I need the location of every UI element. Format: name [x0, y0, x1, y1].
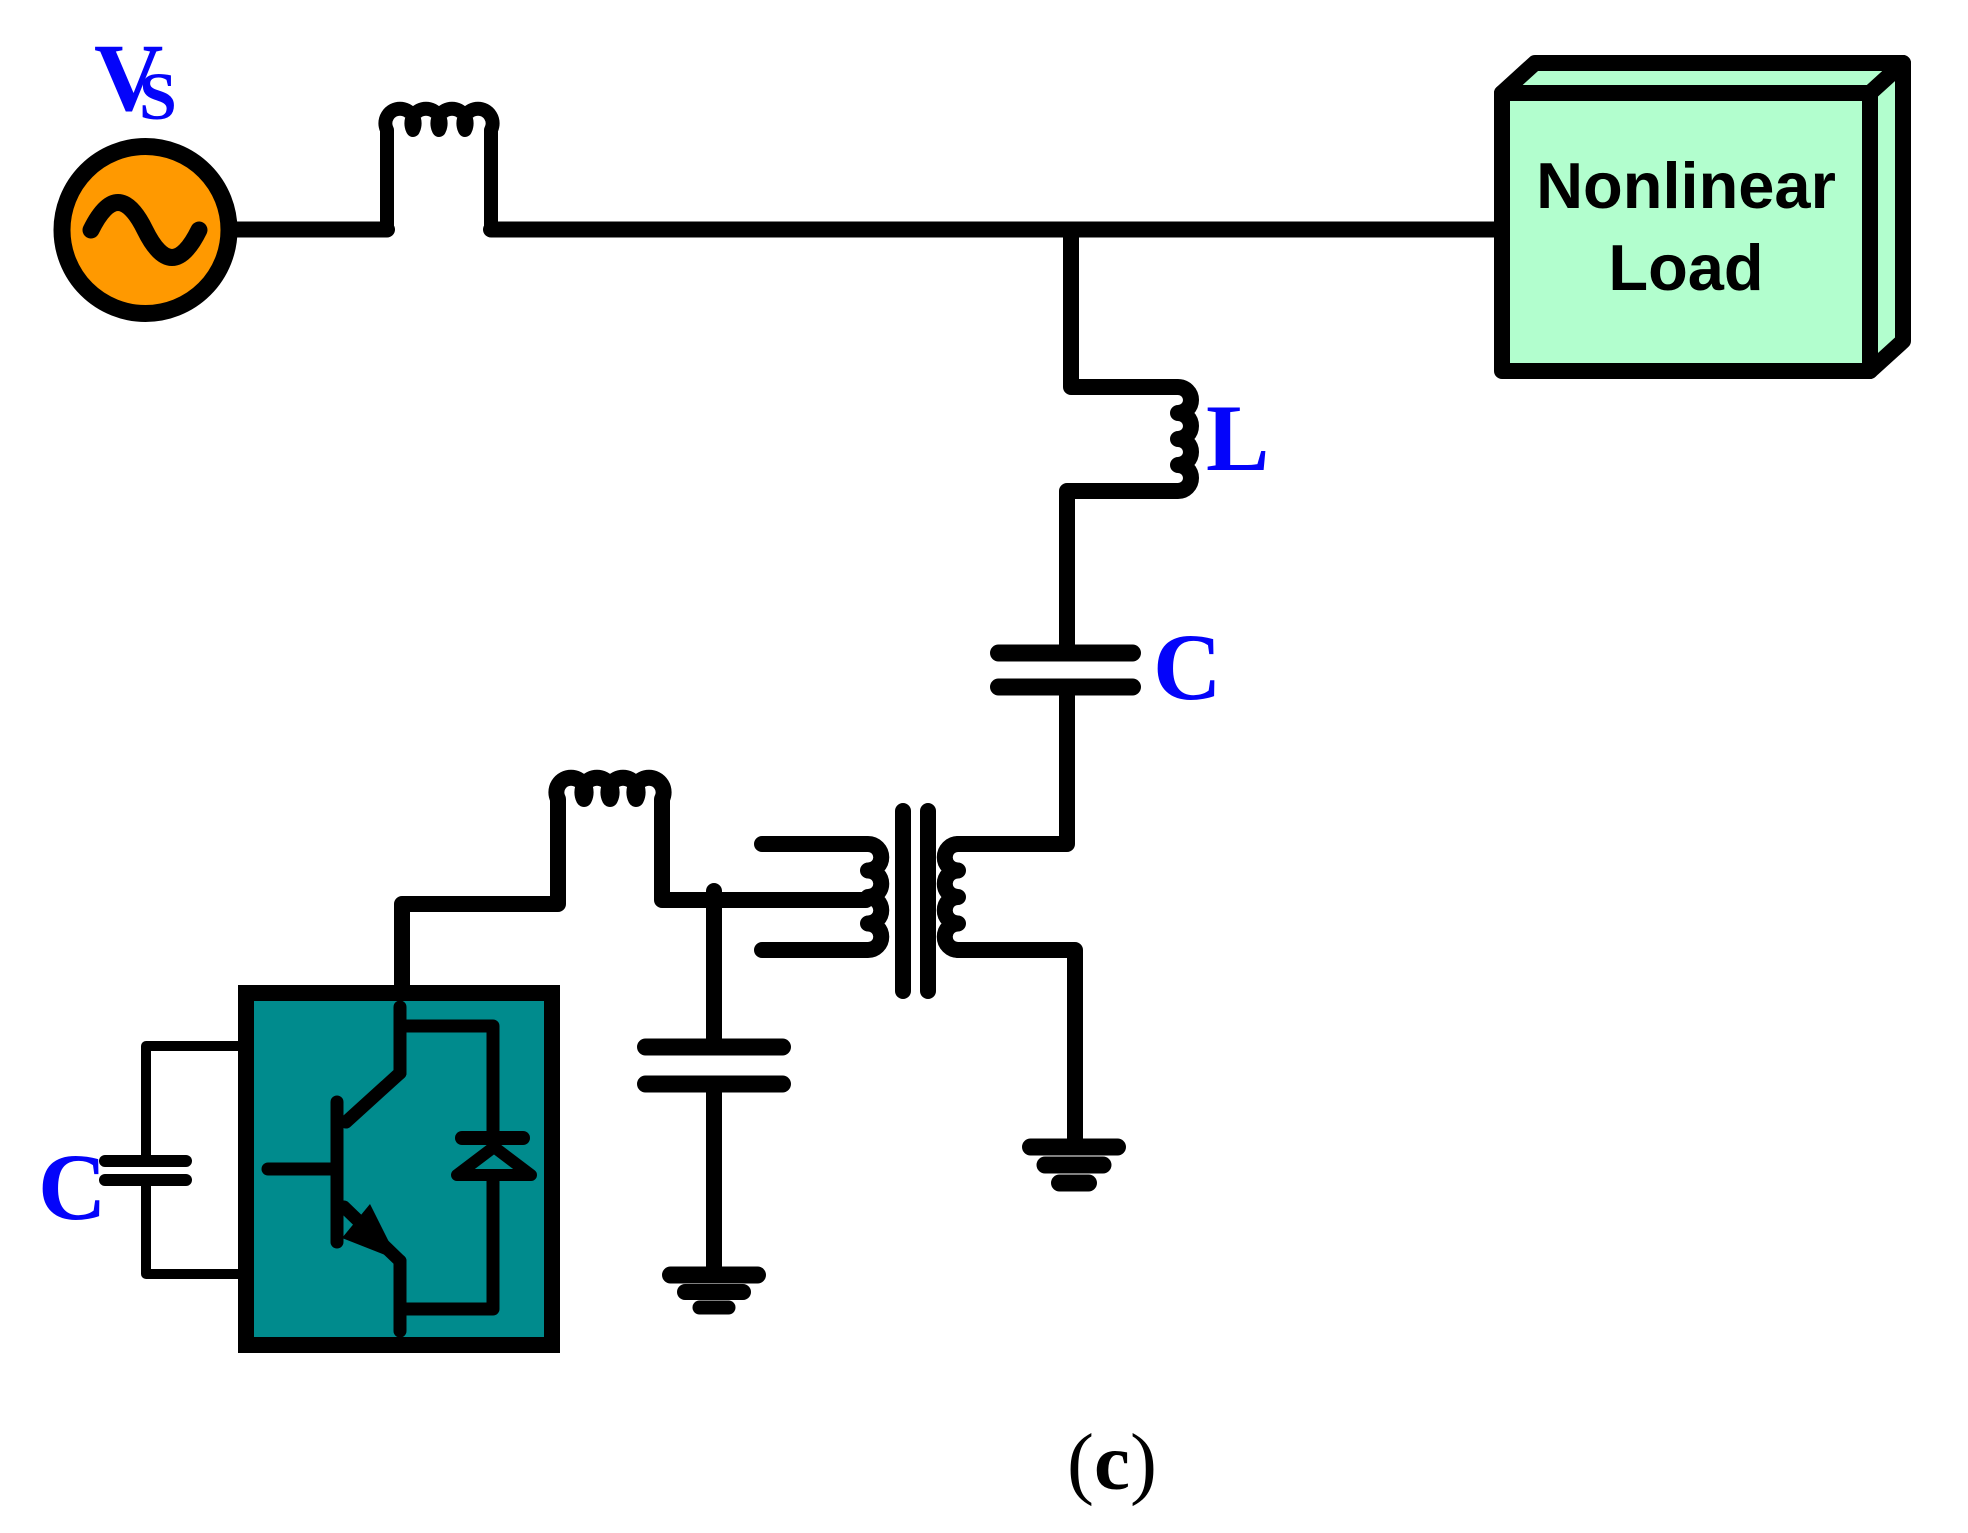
svg-text:(c): (c) — [1067, 1417, 1157, 1507]
svg-text:Nonlinear: Nonlinear — [1536, 149, 1836, 222]
wire: right winding bottom to ground — [958, 950, 1075, 1147]
diode triangle — [457, 1147, 531, 1175]
svg-text:C: C — [1153, 614, 1222, 720]
shunt capacitor — [646, 1039, 783, 1056]
ground (transformer secondary) — [1031, 1139, 1118, 1156]
wire: shunt capacitor to ground — [706, 1092, 722, 1267]
transformer left winding — [762, 844, 881, 950]
ground (shunt capacitor) — [671, 1267, 758, 1284]
inverter box — [246, 993, 552, 1345]
IGBT collector diagonal — [346, 1073, 400, 1122]
IGBT gate wire — [268, 1163, 333, 1176]
wire: source to inductor Ls — [230, 222, 387, 238]
wire: top bus from Ls to load — [491, 222, 1496, 238]
wire: series C to transformer right winding top — [958, 696, 1067, 844]
inductor Ls (source side) — [385, 109, 492, 230]
Nonlinear Load box right face — [1870, 63, 1903, 371]
IGBT top link and diode upper wire — [400, 1026, 493, 1131]
transformer core bars — [895, 811, 911, 991]
transformer right winding — [945, 844, 958, 950]
svg-text:Load: Load — [1608, 231, 1763, 304]
wire: inverter output, inductor Lf, to transformer mid terminal — [402, 778, 866, 993]
IGBT emitter arrow — [342, 1204, 398, 1260]
IGBT bottom link — [400, 1181, 493, 1309]
Nonlinear Load box top face — [1502, 63, 1903, 93]
wire: junction down to shunt capacitor — [706, 891, 722, 1039]
AC source Vs — [62, 147, 229, 314]
wire: dc-link capacitor loop bottom — [146, 1185, 240, 1274]
svg-text:L: L — [1206, 385, 1269, 491]
capacitor C (series) — [999, 645, 1133, 662]
IGBT collector stub — [394, 1007, 407, 1073]
dc-link capacitor C — [105, 1155, 186, 1167]
Nonlinear Load box front face — [1502, 93, 1870, 371]
diode cathode bar — [462, 1131, 523, 1145]
sine wave inside source — [91, 203, 199, 258]
wire: branch down from bus + inductor L — [1067, 230, 1191, 647]
IGBT emitter stub — [394, 1261, 407, 1331]
IGBT gate bar — [331, 1102, 344, 1242]
wire: dc-link capacitor loop top — [146, 1046, 240, 1156]
svg-text:S: S — [139, 58, 177, 134]
IGBT emitter diagonal — [344, 1207, 400, 1261]
svg-text:C: C — [38, 1134, 107, 1240]
